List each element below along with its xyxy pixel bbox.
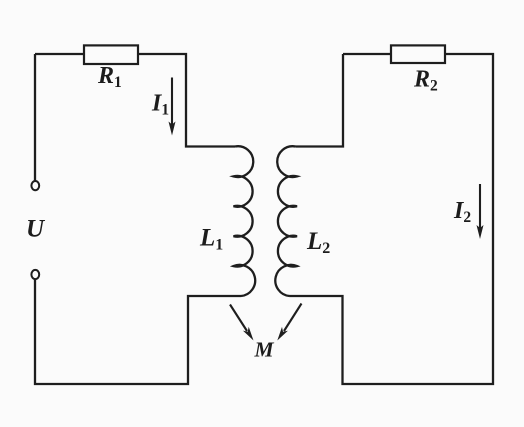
- wire from source top terminal up: [34, 54, 36, 181]
- inductor L2: [275, 146, 297, 296]
- current arrow I2: [477, 184, 484, 239]
- resistor R1: [84, 45, 138, 64]
- terminal (bottom circle of U): [31, 270, 39, 279]
- svg-text:I2: I2: [453, 198, 471, 226]
- terminal (top circle of U): [31, 181, 39, 190]
- wire L1 bottom lead, left-loop bottom, up to source: [35, 279, 241, 384]
- wire left loop: top wire, right vertical, lead to L1: [35, 54, 235, 147]
- svg-text:I1: I1: [151, 91, 169, 119]
- current arrow I1: [169, 78, 176, 136]
- svg-text:L1: L1: [199, 225, 223, 254]
- inductor L1: [234, 146, 256, 296]
- mutual coupling arrow (right): [277, 304, 301, 341]
- svg-text:U: U: [26, 216, 46, 243]
- svg-text:M: M: [254, 338, 275, 362]
- mutual coupling arrow (left): [230, 305, 254, 341]
- svg-text:R1: R1: [97, 63, 122, 91]
- wire right loop: vertical down from top wire, lead to L2: [296, 54, 344, 147]
- wire L2 bottom lead, right-loop bottom, right vertical, top wire: [290, 54, 494, 384]
- svg-text:R2: R2: [413, 67, 438, 95]
- resistor R2: [391, 45, 445, 63]
- svg-text:L2: L2: [306, 228, 330, 257]
